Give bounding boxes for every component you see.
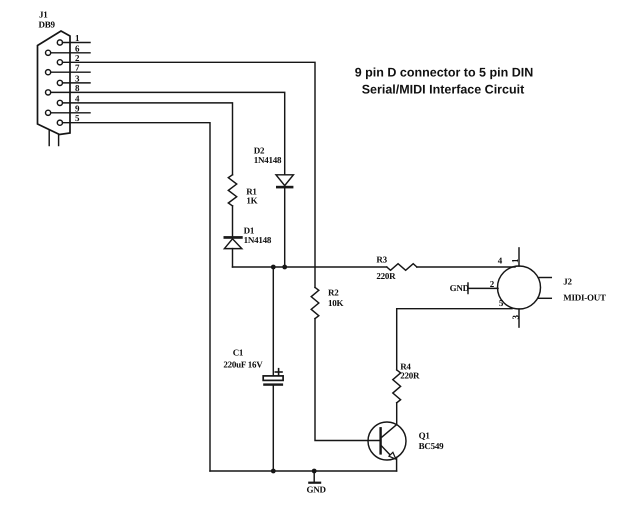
- wire emitter to rail: [396, 459, 398, 471]
- wire D2 to node: [284, 188, 286, 267]
- junction node C1 top: [271, 265, 276, 270]
- pin 2: [57, 53, 80, 65]
- pin 5: [57, 113, 80, 125]
- junction C1 bottom: [271, 469, 276, 474]
- pin 8: [46, 83, 81, 95]
- wire D1 to node: [232, 249, 234, 267]
- wire C1 to bottom rail: [272, 386, 274, 471]
- wire J2 pin5 to R4: [397, 309, 512, 370]
- bottom rail wire: [210, 470, 397, 472]
- J2 right stub lower: [539, 297, 552, 299]
- capacitor C1: [263, 369, 283, 386]
- svg-text:10K: 10K: [328, 298, 344, 308]
- pin 6: [46, 43, 91, 55]
- svg-text:Serial/MIDI Interface Circuit: Serial/MIDI Interface Circuit: [362, 83, 525, 97]
- J1 leg left: [48, 131, 50, 146]
- svg-text:1: 1: [75, 33, 80, 43]
- pin 9: [46, 103, 91, 115]
- wire pin2 to R2 node: [63, 62, 316, 287]
- ground symbol: [308, 471, 321, 484]
- resistor R2: [311, 287, 319, 318]
- svg-text:6: 6: [75, 43, 80, 53]
- connector J1 DB9 body: [38, 31, 71, 135]
- svg-text:8: 8: [75, 83, 80, 93]
- resistor R1: [228, 175, 236, 206]
- title: [355, 66, 533, 97]
- svg-text:R3: R3: [376, 255, 387, 265]
- svg-text:GND: GND: [307, 485, 327, 495]
- svg-text:MIDI-OUT: MIDI-OUT: [563, 293, 606, 303]
- wire R4 to Q1 collector: [382, 403, 397, 437]
- svg-text:2: 2: [75, 53, 80, 63]
- Q1 emitter: [382, 446, 391, 456]
- svg-text:1N4148: 1N4148: [254, 155, 282, 165]
- wire pin5 down left side: [63, 123, 211, 471]
- Q1 emitter arrow: [389, 452, 396, 459]
- svg-text:D2: D2: [254, 146, 265, 156]
- wire node to C1: [272, 267, 274, 376]
- svg-text:5: 5: [75, 113, 80, 123]
- svg-text:C1: C1: [233, 348, 244, 358]
- diode D2: [276, 175, 293, 189]
- connector J2 DIN circle: [498, 266, 541, 309]
- svg-text:J2: J2: [563, 277, 572, 287]
- wire R3 to J2 pin 4: [417, 266, 515, 268]
- diode D1: [224, 236, 243, 249]
- svg-text:J1: J1: [39, 10, 48, 20]
- J1 leg right: [58, 135, 60, 146]
- svg-text:1N4148: 1N4148: [244, 235, 272, 245]
- svg-text:7: 7: [75, 63, 80, 73]
- resistor R4: [393, 370, 401, 403]
- svg-text:9 pin D connector to 5 pin DIN: 9 pin D connector to 5 pin DIN: [355, 66, 533, 80]
- svg-text:R2: R2: [328, 288, 339, 298]
- wire GND bar to J2 pin 2: [468, 287, 498, 289]
- node wire horizontal: [233, 266, 387, 268]
- transistor Q1 circle: [368, 422, 406, 460]
- svg-text:DB9: DB9: [39, 20, 56, 30]
- svg-text:3: 3: [511, 315, 521, 320]
- svg-text:GND: GND: [450, 283, 470, 293]
- resistor R3: [387, 264, 417, 271]
- svg-text:220R: 220R: [400, 371, 420, 381]
- J2 bottom stub pin 3: [518, 309, 520, 327]
- svg-text:3: 3: [75, 73, 80, 83]
- svg-text:4: 4: [75, 93, 80, 103]
- J2 top stub pin 1: [518, 248, 520, 266]
- svg-text:9: 9: [75, 103, 80, 113]
- pin 4: [57, 93, 80, 105]
- Q1 base bar: [379, 427, 381, 455]
- wire pin8 to D2: [51, 92, 285, 174]
- wire R2 to Q1 base: [315, 319, 379, 441]
- pin 3: [57, 73, 90, 85]
- svg-text:220uF 16V: 220uF 16V: [223, 360, 263, 370]
- pin 1: [57, 33, 90, 45]
- junction GND tap: [312, 469, 317, 474]
- svg-text:220R: 220R: [376, 271, 396, 281]
- junction node D2 bottom: [282, 265, 287, 270]
- GND bar (J2): [467, 283, 469, 294]
- J2 right stub upper: [539, 277, 552, 279]
- svg-text:5: 5: [499, 298, 504, 308]
- wire R1 to D1: [232, 206, 234, 236]
- svg-text:1K: 1K: [246, 196, 257, 206]
- pin 7: [46, 63, 91, 75]
- svg-text:BC549: BC549: [419, 441, 445, 451]
- svg-text:D1: D1: [244, 226, 255, 236]
- wire pin4 to R1: [63, 103, 233, 175]
- svg-text:4: 4: [498, 256, 503, 266]
- svg-text:2: 2: [490, 279, 495, 289]
- svg-text:Q1: Q1: [419, 431, 431, 441]
- svg-text:1: 1: [510, 258, 520, 263]
